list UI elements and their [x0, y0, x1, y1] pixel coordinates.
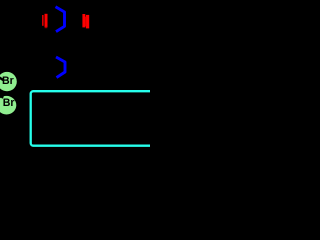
svg-text:Br: Br: [3, 97, 15, 109]
svg-text:Br: Br: [2, 75, 14, 87]
